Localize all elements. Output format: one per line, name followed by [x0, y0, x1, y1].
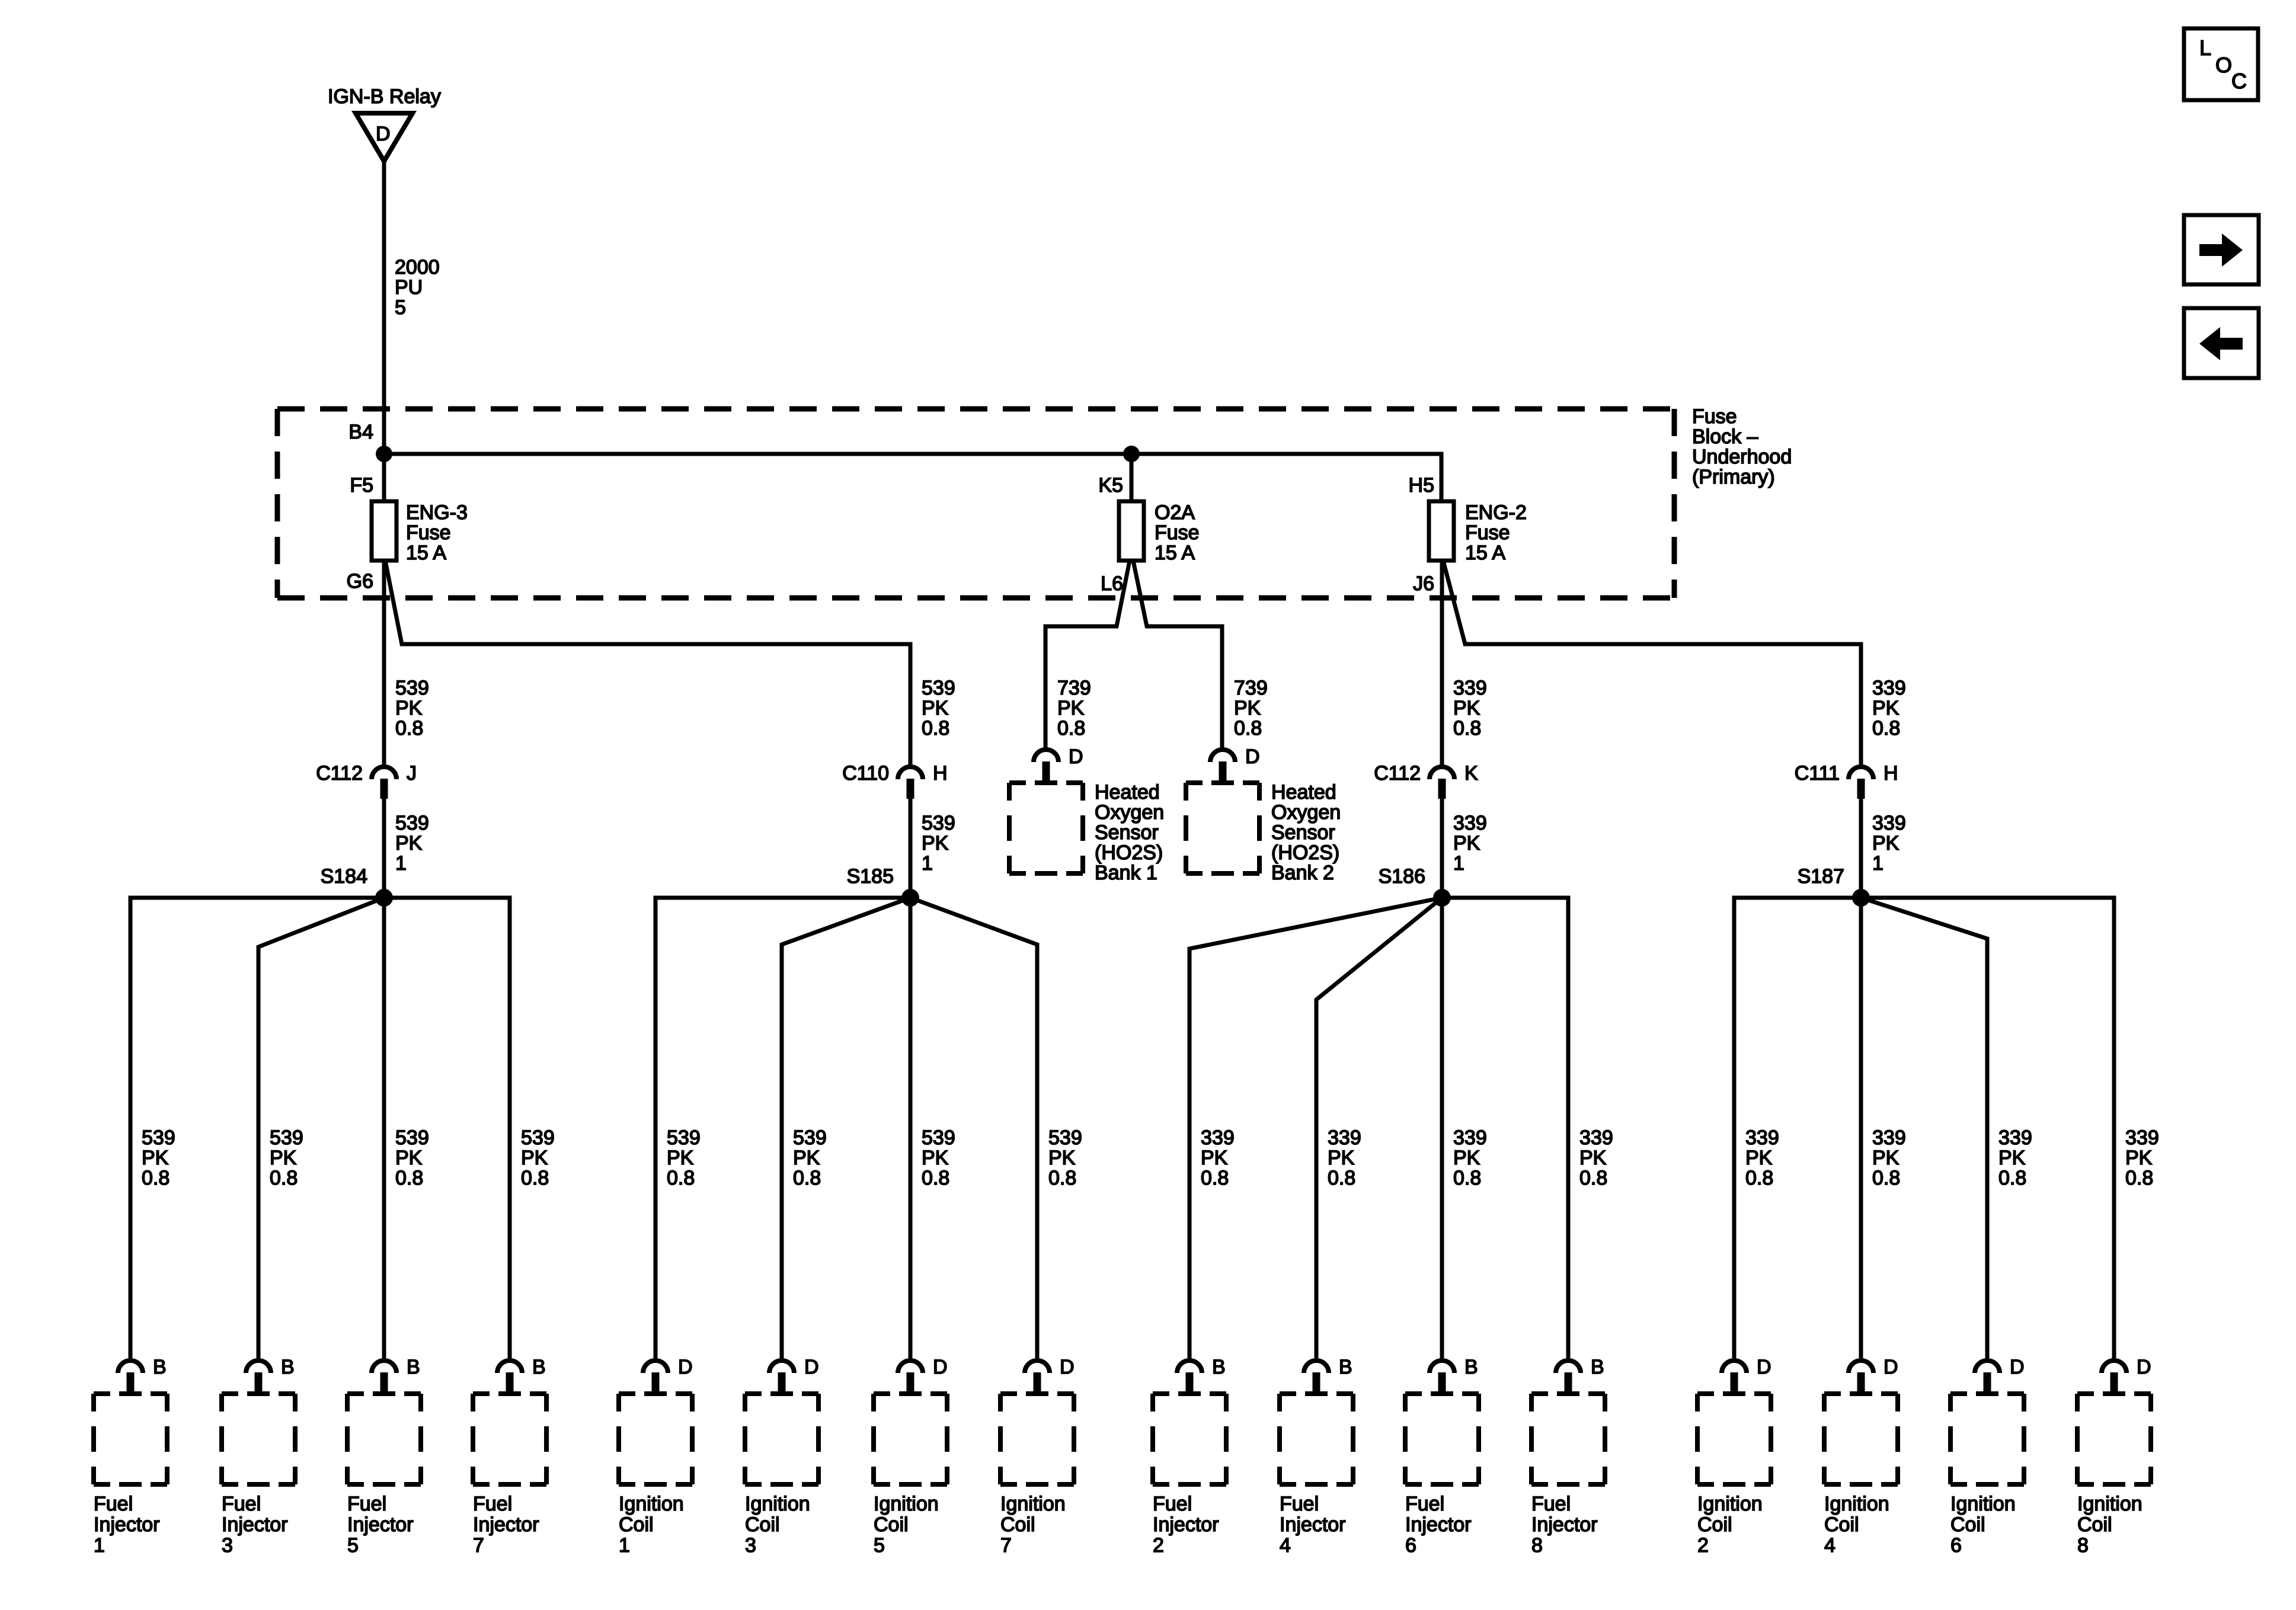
fuse block label: Fuse Block - Underhood (Primary) [1692, 405, 1792, 488]
wire: connector to splice S185 [909, 799, 913, 898]
svg-text:Ignition: Ignition [745, 1493, 810, 1515]
connector pin D of Ignition Coil 5 [898, 1356, 948, 1393]
wire label 539 PK 0.8 at x=648 (lower) [395, 1126, 429, 1189]
svg-text:Injector: Injector [1405, 1513, 1472, 1536]
connector pin B of Fuel Injector 1 [118, 1356, 167, 1393]
splice node S185 [901, 889, 919, 907]
svg-text:Bank 2: Bank 2 [1271, 862, 1334, 884]
svg-text:D: D [2137, 1356, 2151, 1378]
svg-text:1: 1 [1872, 852, 1884, 875]
component box Fuel Injector 1 (dashed) [94, 1394, 167, 1484]
svg-text:6: 6 [1950, 1534, 1962, 1557]
svg-text:PK: PK [2125, 1147, 2153, 1169]
svg-text:5: 5 [347, 1534, 359, 1557]
connector pin B of Fuel Injector 4 [1304, 1356, 1352, 1393]
svg-text:PK: PK [142, 1147, 169, 1169]
component box Fuel Injector 5 (dashed) [347, 1394, 421, 1484]
svg-text:7: 7 [473, 1534, 484, 1557]
svg-text:539: 539 [793, 1126, 827, 1149]
svg-text:Coil: Coil [1697, 1513, 1732, 1536]
svg-text:0.8: 0.8 [1201, 1167, 1229, 1189]
svg-text:1: 1 [619, 1534, 630, 1557]
svg-text:0.8: 0.8 [1872, 717, 1900, 740]
connector C112 pin J [316, 762, 417, 799]
svg-text:539: 539 [1048, 1126, 1082, 1149]
wire label 539 PK 0.8 at x=1319 (lower) [793, 1126, 827, 1189]
svg-text:339: 339 [1453, 677, 1487, 699]
svg-text:Fuel: Fuel [347, 1493, 386, 1515]
svg-text:O: O [2215, 53, 2232, 77]
component label Fuel Injector 4 [1280, 1493, 1346, 1557]
svg-text:Ignition: Ignition [1824, 1493, 1889, 1515]
svg-text:(Primary): (Primary) [1692, 466, 1775, 488]
svg-text:0.8: 0.8 [142, 1167, 170, 1189]
connector pin D of HO2S Bank 1 [1034, 745, 1083, 782]
svg-text:G6: G6 [347, 570, 373, 593]
svg-text:B: B [153, 1356, 167, 1378]
svg-text:739: 739 [1234, 677, 1268, 699]
svg-text:PK: PK [793, 1147, 820, 1169]
component box Ignition Coil 8 (dashed) [2077, 1394, 2151, 1484]
svg-text:F5: F5 [350, 474, 373, 497]
svg-text:B4: B4 [348, 421, 373, 443]
connector pin B of Fuel Injector 7 [497, 1356, 546, 1393]
svg-text:B: B [1464, 1356, 1478, 1378]
svg-text:0.8: 0.8 [1057, 717, 1085, 740]
svg-text:5: 5 [395, 296, 406, 319]
svg-text:0.8: 0.8 [922, 717, 949, 740]
svg-text:Ignition: Ignition [1000, 1493, 1066, 1515]
svg-text:C110: C110 [842, 762, 889, 785]
svg-text:Underhood: Underhood [1692, 446, 1792, 468]
svg-text:Fuse: Fuse [1155, 521, 1200, 544]
wire: splice S186 to Fuel Injector 2 [1189, 898, 1442, 1358]
svg-text:1: 1 [94, 1534, 105, 1557]
fuse ENG-2 15 A [1429, 501, 1454, 561]
svg-text:Coil: Coil [2077, 1513, 2112, 1536]
svg-text:Heated: Heated [1271, 781, 1336, 804]
wire label 339 PK 0.8 at x=2433 [1453, 677, 1487, 740]
wire label 539 PK 1 at x=648 [395, 812, 429, 875]
svg-text:D: D [678, 1356, 693, 1378]
svg-text:S185: S185 [847, 865, 894, 888]
navigation box: arrow left [2184, 308, 2259, 378]
svg-text:Coil: Coil [1950, 1513, 1985, 1536]
fuse label ENG-2 Fuse 15 A [1465, 501, 1527, 564]
wire: ENG-3 fuse G6 to connector C110 pin H (dogleg) [385, 561, 910, 766]
svg-text:15 A: 15 A [1155, 542, 1195, 564]
svg-text:PK: PK [1745, 1147, 1773, 1169]
component box Fuel Injector 2 (dashed) [1153, 1394, 1226, 1484]
svg-text:Heated: Heated [1095, 781, 1160, 804]
svg-text:Fuel: Fuel [1531, 1493, 1571, 1515]
svg-text:0.8: 0.8 [270, 1167, 298, 1189]
wire: connector to splice S187 [1859, 799, 1863, 898]
component label Fuel Injector 3 [222, 1493, 288, 1557]
svg-text:Ignition: Ignition [1950, 1493, 2016, 1515]
svg-text:339: 339 [1201, 1126, 1235, 1149]
svg-text:0.8: 0.8 [1998, 1167, 2026, 1189]
svg-text:Oxygen: Oxygen [1271, 801, 1341, 824]
svg-text:Fuel: Fuel [222, 1493, 261, 1515]
connector pin B of Fuel Injector 2 [1177, 1356, 1226, 1393]
svg-text:Fuse: Fuse [406, 521, 451, 544]
fuse ENG-3 15 A [372, 501, 396, 561]
svg-text:Block –: Block – [1692, 425, 1758, 448]
svg-text:Bank 1: Bank 1 [1095, 862, 1157, 884]
component box Fuel Injector 8 (dashed) [1531, 1394, 1605, 1484]
wire: splice S186 to Fuel Injector 8 [1442, 898, 1568, 1358]
connector C112 pin K [1374, 762, 1478, 799]
component box Ignition Coil 1 (dashed) [619, 1394, 692, 1484]
svg-text:1: 1 [395, 852, 407, 875]
wire: O2A fuse L6 to HO2S Bank 1 (left V branch) [1045, 561, 1130, 748]
component label Ignition Coil 8 [2077, 1493, 2142, 1557]
svg-text:539: 539 [922, 812, 955, 834]
label Heated Oxygen Sensor (HO2S) Bank 2 [1271, 781, 1341, 884]
svg-text:L6: L6 [1101, 572, 1123, 595]
wire: splice S185 to Ignition Coil 5 [909, 898, 913, 1358]
svg-text:Fuel: Fuel [473, 1493, 512, 1515]
connector pin D of Ignition Coil 7 [1025, 1356, 1075, 1393]
svg-text:2: 2 [1153, 1534, 1164, 1557]
wire label 539 PK 0.8 at x=1106 (lower) [667, 1126, 701, 1189]
svg-text:Ignition: Ignition [874, 1493, 939, 1515]
wire: ENG-2 fuse J6 to connector C111 pin H (dogleg) [1443, 561, 1861, 766]
wire: ENG-3 fuse G6 down to connector C112 pin J [382, 561, 386, 766]
svg-text:PK: PK [667, 1147, 694, 1169]
svg-text:S184: S184 [321, 865, 367, 888]
svg-text:B: B [532, 1356, 546, 1378]
svg-text:2000: 2000 [395, 256, 440, 279]
svg-text:339: 339 [1872, 812, 1906, 834]
svg-text:PK: PK [395, 697, 423, 719]
svg-text:Fuel: Fuel [1280, 1493, 1319, 1515]
svg-text:339: 339 [1872, 677, 1906, 699]
svg-text:Coil: Coil [745, 1513, 780, 1536]
svg-text:539: 539 [270, 1126, 303, 1149]
wire: connector to splice S186 [1440, 799, 1444, 898]
svg-text:K5: K5 [1098, 474, 1123, 497]
svg-text:PK: PK [922, 1147, 949, 1169]
connector pin D of Ignition Coil 4 [1849, 1356, 1898, 1393]
wire label 339 PK 0.8 at x=3353 (lower) [1998, 1126, 2032, 1189]
svg-text:PK: PK [1057, 697, 1085, 719]
svg-text:1: 1 [922, 852, 933, 875]
svg-text:L: L [2199, 36, 2211, 60]
svg-text:Fuel: Fuel [94, 1493, 133, 1515]
wire: bus to O2A fuse (K5) [1130, 454, 1134, 501]
svg-text:H: H [1884, 762, 1898, 785]
svg-text:H: H [933, 762, 948, 785]
wire label 539 PK 0.8 at x=1750 (lower) [1048, 1126, 1082, 1189]
fuse label ENG-3 Fuse 15 A [406, 501, 468, 564]
svg-text:Injector: Injector [1531, 1513, 1598, 1536]
wire label 339 PK 0.8 at x=3140 [1872, 677, 1906, 740]
LOC reference box [2184, 28, 2258, 100]
svg-text:PK: PK [1234, 697, 1261, 719]
svg-text:PK: PK [395, 832, 423, 854]
svg-text:ENG-3: ENG-3 [406, 501, 468, 524]
svg-text:J: J [407, 762, 417, 785]
wire: B4 junction down to ENG-3 fuse (F5) [382, 454, 386, 501]
svg-text:4: 4 [1824, 1534, 1835, 1557]
svg-text:339: 339 [1328, 1126, 1361, 1149]
svg-text:B: B [1339, 1356, 1352, 1378]
connector C110 pin H [842, 762, 947, 799]
heated oxygen sensor HO2S Bank 2 (dashed box) [1186, 783, 1259, 873]
svg-text:Fuel: Fuel [1153, 1493, 1192, 1515]
svg-text:C112: C112 [1374, 762, 1421, 785]
svg-text:C112: C112 [316, 762, 363, 785]
splice node S184 [375, 889, 393, 907]
wire: splice S187 to Ignition Coil 8 [1861, 898, 2114, 1358]
connector pin D of Ignition Coil 1 [643, 1356, 693, 1393]
svg-text:PK: PK [1872, 832, 1900, 854]
wire: splice S186 to Fuel Injector 6 [1440, 898, 1444, 1358]
svg-text:5: 5 [874, 1534, 885, 1557]
component box Ignition Coil 2 (dashed) [1697, 1394, 1771, 1484]
svg-text:0.8: 0.8 [793, 1167, 821, 1189]
connector pin B of Fuel Injector 8 [1556, 1356, 1604, 1393]
component label Fuel Injector 5 [347, 1493, 414, 1557]
svg-text:C: C [2231, 69, 2247, 93]
component box Ignition Coil 7 (dashed) [1000, 1394, 1074, 1484]
svg-text:Sensor: Sensor [1095, 821, 1159, 844]
wire: splice S184 to Fuel Injector 7 [384, 898, 510, 1358]
wire label 339 PK 1 at x=3140 [1872, 812, 1906, 875]
component box Ignition Coil 5 (dashed) [874, 1394, 947, 1484]
component label Fuel Injector 6 [1405, 1493, 1472, 1557]
component box Fuel Injector 4 (dashed) [1280, 1394, 1353, 1484]
svg-text:0.8: 0.8 [1453, 717, 1481, 740]
wire label 539 PK 0.8 at x=1536 [922, 677, 955, 740]
svg-text:339: 339 [2125, 1126, 2159, 1149]
wire: splice S185 to Ignition Coil 3 [782, 898, 910, 1358]
wire: splice S185 to Ignition Coil 1 [655, 898, 910, 1358]
svg-text:PK: PK [1579, 1147, 1607, 1169]
svg-text:539: 539 [922, 1126, 955, 1149]
svg-text:0.8: 0.8 [1328, 1167, 1355, 1189]
wire label 539 PK 0.8 at x=648 [395, 677, 429, 740]
svg-text:339: 339 [1745, 1126, 1779, 1149]
wire: splice S187 to Ignition Coil 4 [1859, 898, 1863, 1358]
svg-text:1: 1 [1453, 852, 1464, 875]
fuse O2A 15 A [1119, 501, 1144, 561]
heated oxygen sensor HO2S Bank 1 (dashed box) [1009, 783, 1083, 873]
svg-text:Fuse: Fuse [1692, 405, 1737, 428]
component label Ignition Coil 3 [745, 1493, 810, 1557]
svg-text:B: B [1212, 1356, 1226, 1378]
component label Ignition Coil 7 [1000, 1493, 1066, 1557]
splice node S187 [1852, 889, 1870, 907]
label Heated Oxygen Sensor (HO2S) Bank 1 [1095, 781, 1164, 884]
svg-text:D: D [1757, 1356, 1771, 1378]
svg-text:15 A: 15 A [1465, 542, 1505, 564]
component label Fuel Injector 8 [1531, 1493, 1598, 1557]
svg-text:(HO2S): (HO2S) [1271, 841, 1339, 864]
bus wire from B4 junction to ENG-2 fuse (H5) [384, 454, 1441, 501]
svg-text:PK: PK [1872, 697, 1900, 719]
svg-text:PK: PK [1453, 697, 1480, 719]
wire label 339 PK 0.8 at x=2926 (lower) [1745, 1126, 1779, 1189]
svg-text:H5: H5 [1409, 474, 1434, 497]
svg-text:0.8: 0.8 [667, 1167, 695, 1189]
svg-text:0.8: 0.8 [1872, 1167, 1900, 1189]
fuse label O2A Fuse 15 A [1155, 501, 1200, 564]
svg-text:Ignition: Ignition [1697, 1493, 1763, 1515]
svg-text:D: D [1069, 745, 1083, 768]
svg-text:539: 539 [667, 1126, 701, 1149]
wire label 339 PK 0.8 at x=3140 (lower) [1872, 1126, 1906, 1189]
connector pin D of Ignition Coil 6 [1975, 1356, 2025, 1393]
connector pin D of Ignition Coil 8 [2102, 1356, 2151, 1393]
svg-text:2: 2 [1697, 1534, 1709, 1557]
svg-text:IGN-B Relay: IGN-B Relay [328, 85, 441, 108]
splice node S186 [1433, 889, 1451, 907]
svg-text:Injector: Injector [1280, 1513, 1346, 1536]
svg-text:PU: PU [395, 276, 423, 299]
svg-text:339: 339 [1453, 812, 1487, 834]
component box Ignition Coil 6 (dashed) [1950, 1394, 2024, 1484]
wire: splice S184 to Fuel Injector 5 [382, 898, 386, 1358]
wire label 539 PK 0.8 at x=860 (lower) [521, 1126, 555, 1189]
svg-text:Ignition: Ignition [619, 1493, 684, 1515]
svg-text:PK: PK [1328, 1147, 1355, 1169]
svg-text:539: 539 [142, 1126, 175, 1149]
wire: IGN-B Relay D to fuse block terminal B4 [382, 161, 386, 454]
svg-text:PK: PK [1453, 1147, 1480, 1169]
wire label 339 PK 0.8 at x=2433 (lower) [1453, 1126, 1487, 1189]
component label Ignition Coil 1 [619, 1493, 684, 1557]
junction node at K5 [1123, 446, 1140, 462]
svg-text:539: 539 [395, 812, 429, 834]
svg-text:339: 339 [1872, 1126, 1906, 1149]
wire label 539 PK 0.8 at x=220 (lower) [142, 1126, 175, 1189]
component label Fuel Injector 2 [1153, 1493, 1219, 1557]
wire: O2A fuse L6 to HO2S Bank 2 (right V branch) [1133, 561, 1222, 748]
svg-text:539: 539 [922, 677, 955, 699]
svg-text:339: 339 [1453, 1126, 1487, 1149]
svg-text:0.8: 0.8 [1745, 1167, 1773, 1189]
wire label 539 PK 1 at x=1536 [922, 812, 955, 875]
wire: splice S184 to Fuel Injector 3 [258, 898, 384, 1358]
navigation box: arrow right [2184, 215, 2259, 284]
svg-text:539: 539 [395, 1126, 429, 1149]
wire label 339 PK 0.8 at x=2007 (lower) [1201, 1126, 1235, 1189]
wire label 739 PK 0.8 at x=1765 [1057, 677, 1091, 740]
svg-text:D: D [1245, 745, 1260, 768]
svg-text:Injector: Injector [473, 1513, 539, 1536]
svg-text:4: 4 [1280, 1534, 1291, 1557]
wire label 339 PK 0.8 at x=2221 (lower) [1328, 1126, 1361, 1189]
wire label 339 PK 1 at x=2433 [1453, 812, 1487, 875]
svg-text:D: D [1060, 1356, 1075, 1378]
svg-text:Coil: Coil [1824, 1513, 1859, 1536]
svg-text:0.8: 0.8 [1453, 1167, 1481, 1189]
svg-text:PK: PK [1998, 1147, 2026, 1169]
connector pin D of HO2S Bank 2 [1210, 745, 1260, 782]
svg-text:0.8: 0.8 [395, 717, 423, 740]
wire: splice S187 to Ignition Coil 2 [1734, 898, 1861, 1358]
svg-text:S187: S187 [1798, 865, 1844, 888]
svg-text:ENG-2: ENG-2 [1465, 501, 1527, 524]
svg-text:S186: S186 [1379, 865, 1425, 888]
wire: splice S184 to Fuel Injector 1 [130, 898, 384, 1358]
svg-text:Injector: Injector [347, 1513, 414, 1536]
svg-text:Injector: Injector [94, 1513, 160, 1536]
component label Fuel Injector 1 [94, 1493, 160, 1557]
component label Ignition Coil 5 [874, 1493, 939, 1557]
component box Fuel Injector 6 (dashed) [1405, 1394, 1479, 1484]
svg-text:Fuel: Fuel [1405, 1493, 1444, 1515]
wire: splice S186 to Fuel Injector 4 [1316, 898, 1442, 1358]
svg-text:PK: PK [922, 697, 949, 719]
svg-text:PK: PK [1872, 1147, 1900, 1169]
wire label 539 PK 0.8 at x=436 (lower) [270, 1126, 303, 1189]
svg-text:8: 8 [2077, 1534, 2089, 1557]
svg-text:PK: PK [922, 832, 949, 854]
svg-text:B: B [407, 1356, 420, 1378]
svg-text:B: B [1591, 1356, 1604, 1378]
svg-text:0.8: 0.8 [922, 1167, 949, 1189]
connector pin B of Fuel Injector 6 [1430, 1356, 1478, 1393]
connector C111 pin H [1795, 762, 1898, 799]
component label Fuel Injector 7 [473, 1493, 539, 1557]
svg-text:Coil: Coil [1000, 1513, 1035, 1536]
svg-text:D: D [804, 1356, 819, 1378]
wire: connector to splice S184 [382, 799, 386, 898]
svg-text:PK: PK [395, 1147, 423, 1169]
component label Ignition Coil 4 [1824, 1493, 1889, 1557]
svg-text:D: D [1884, 1356, 1898, 1378]
svg-text:K: K [1464, 762, 1478, 785]
wire label 2000 PU 5 [395, 256, 440, 319]
component label Ignition Coil 2 [1697, 1493, 1763, 1557]
svg-text:0.8: 0.8 [521, 1167, 549, 1189]
svg-text:(HO2S): (HO2S) [1095, 841, 1163, 864]
wire label 339 PK 0.8 at x=2646 (lower) [1579, 1126, 1613, 1189]
connector pin D of Ignition Coil 2 [1722, 1356, 1771, 1393]
svg-text:0.8: 0.8 [1579, 1167, 1607, 1189]
svg-text:6: 6 [1405, 1534, 1416, 1557]
svg-text:PK: PK [1201, 1147, 1228, 1169]
svg-text:B: B [281, 1356, 295, 1378]
svg-text:Injector: Injector [1153, 1513, 1219, 1536]
svg-text:Coil: Coil [874, 1513, 909, 1536]
wire: splice S185 to Ignition Coil 7 [910, 898, 1037, 1358]
svg-text:D: D [2010, 1356, 2025, 1378]
svg-text:D: D [376, 123, 391, 145]
svg-text:7: 7 [1000, 1534, 1012, 1557]
connector pin B of Fuel Injector 5 [372, 1356, 420, 1393]
svg-text:0.8: 0.8 [1048, 1167, 1076, 1189]
component label Ignition Coil 6 [1950, 1493, 2016, 1557]
svg-text:PK: PK [1453, 832, 1480, 854]
svg-text:Injector: Injector [222, 1513, 288, 1536]
svg-text:Sensor: Sensor [1271, 821, 1335, 844]
svg-text:539: 539 [521, 1126, 555, 1149]
wire label 339 PK 0.8 at x=3567 (lower) [2125, 1126, 2159, 1189]
svg-text:339: 339 [1998, 1126, 2032, 1149]
svg-text:Ignition: Ignition [2077, 1493, 2142, 1515]
svg-text:739: 739 [1057, 677, 1091, 699]
svg-text:0.8: 0.8 [1234, 717, 1262, 740]
relay triangle pin D (IGN-B Relay terminal D) [356, 113, 412, 161]
component box Ignition Coil 4 (dashed) [1824, 1394, 1898, 1484]
svg-text:PK: PK [1048, 1147, 1076, 1169]
connector pin D of Ignition Coil 3 [769, 1356, 819, 1393]
